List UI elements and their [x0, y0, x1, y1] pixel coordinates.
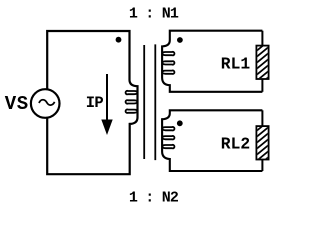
wire secondary 1 right stub top — [261, 31, 263, 47]
phase dot primary — [116, 37, 122, 43]
svg-text:IP: IP — [86, 94, 104, 112]
winding secondary 1 turn 3 — [162, 70, 175, 73]
winding secondary 1 turn 2 — [162, 61, 175, 65]
svg-text:1 : N2: 1 : N2 — [129, 190, 179, 207]
arrow IP current — [106, 74, 108, 121]
winding secondary 1 turn 1 — [162, 52, 175, 56]
wire secondary 2 right stub bottom — [261, 159, 263, 172]
winding primary turn 1 — [126, 91, 138, 95]
winding secondary 2 turn 3 — [162, 145, 175, 149]
resistor RL1 — [256, 46, 268, 79]
phase dot secondary 1 — [177, 37, 183, 43]
winding primary turn 3 — [126, 109, 138, 112]
svg-text:VS: VS — [5, 93, 29, 115]
core line right — [154, 44, 156, 160]
svg-text:RL2: RL2 — [221, 134, 250, 153]
wire secondary 2 right stub top — [261, 110, 263, 127]
wire primary loop outline — [47, 31, 137, 174]
winding secondary 2 turn 2 — [162, 136, 175, 140]
wire secondary 1 right stub bottom — [261, 78, 263, 92]
wire secondary 1 loop — [162, 31, 262, 92]
winding secondary 2 turn 1 — [162, 127, 175, 130]
svg-text:RL1: RL1 — [221, 54, 251, 73]
sine symbol of VS — [39, 100, 55, 105]
phase dot secondary 2 — [177, 120, 183, 126]
winding primary turn 2 — [126, 100, 138, 103]
core line left — [143, 45, 145, 159]
wire secondary 2 loop — [162, 110, 262, 171]
source VS circle — [31, 89, 60, 118]
svg-text:1 : N1: 1 : N1 — [129, 6, 179, 23]
resistor RL2 — [256, 126, 268, 159]
